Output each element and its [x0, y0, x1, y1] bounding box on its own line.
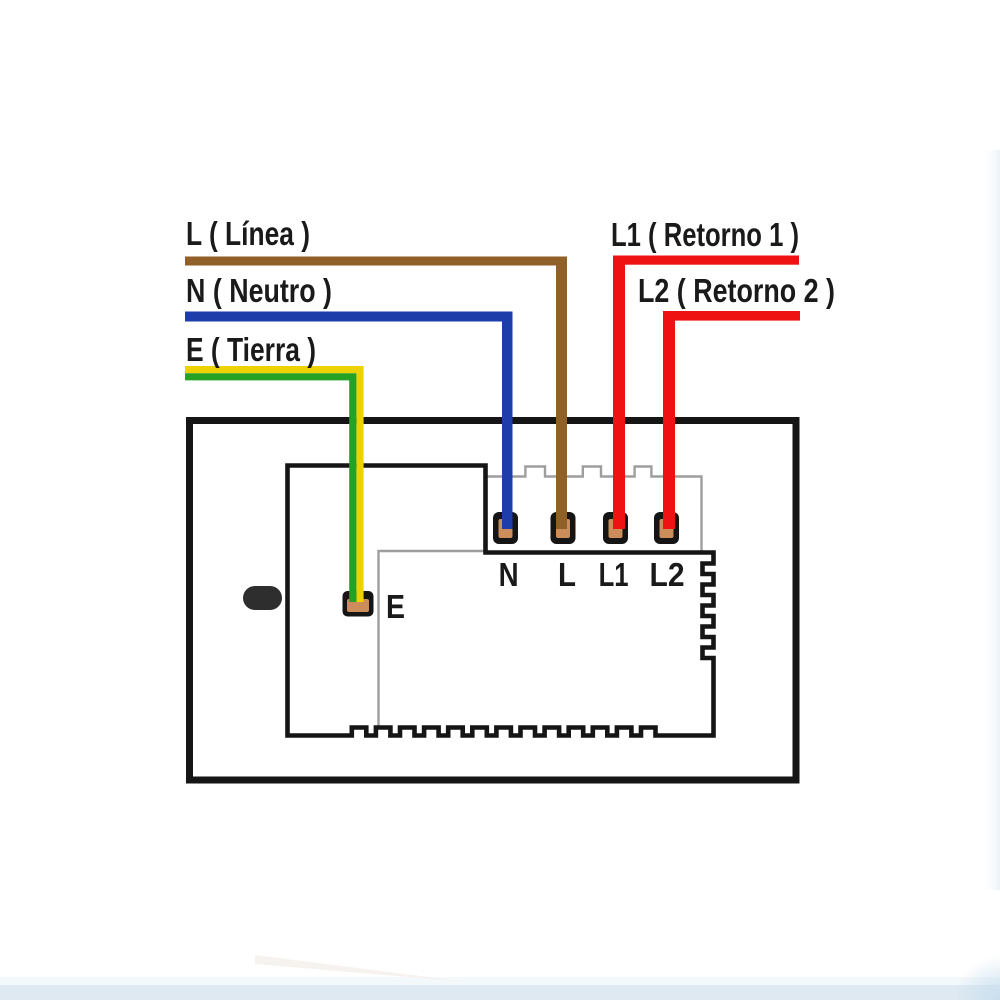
module outline (gray PCB left and top edges)	[379, 551, 485, 728]
terminal L2	[654, 512, 679, 544]
wire E (yellow part)	[185, 370, 360, 602]
faint shadow smudge bottom left	[255, 955, 468, 982]
outer switch body box	[190, 421, 797, 781]
svg-text:N: N	[499, 556, 519, 593]
wire N (blue)	[185, 312, 513, 530]
svg-text:L1: L1	[599, 556, 629, 593]
svg-text:L2: L2	[650, 556, 685, 593]
bottom light blue band	[0, 984, 1000, 1000]
svg-text:L ( Línea ): L ( Línea )	[186, 215, 310, 252]
terminal L1	[603, 512, 628, 544]
terminal N	[493, 512, 518, 544]
svg-text:N ( Neutro ): N ( Neutro )	[186, 272, 332, 309]
svg-text:L2 ( Retorno 2 ): L2 ( Retorno 2 )	[638, 272, 835, 309]
svg-text:E ( Tierra ): E ( Tierra )	[186, 331, 316, 368]
inner castellated black outline (switch mechanism)	[288, 466, 714, 736]
gray castellated strip above terminals	[484, 467, 702, 552]
svg-text:L: L	[558, 556, 576, 593]
wire L2 (red)	[663, 311, 800, 529]
svg-text:E: E	[386, 588, 405, 625]
terminal L	[551, 512, 576, 544]
wire L1 (red)	[613, 256, 799, 530]
wire L (brown)	[185, 257, 567, 530]
wire E (green part)	[185, 377, 353, 602]
LED pill indicator	[243, 586, 282, 610]
terminal E	[343, 591, 374, 617]
svg-text:L1 ( Retorno 1 ): L1 ( Retorno 1 )	[611, 216, 799, 253]
